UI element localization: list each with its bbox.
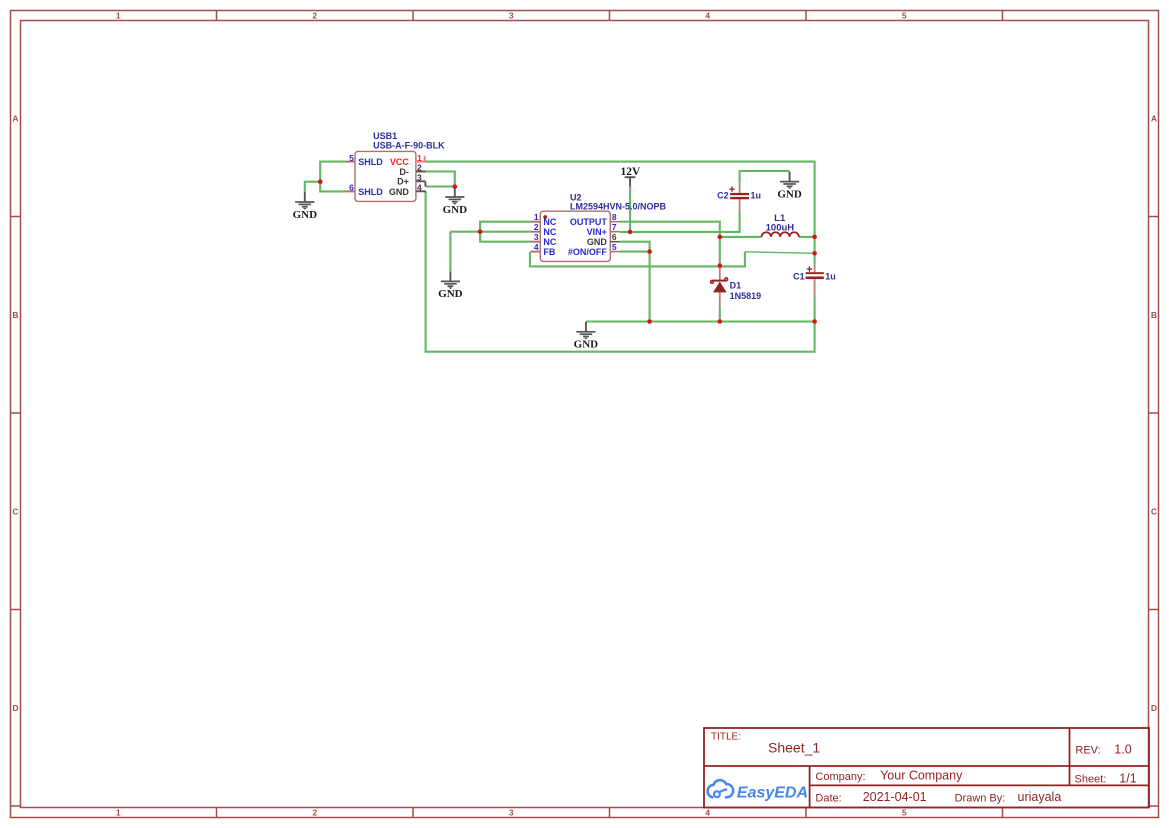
- svg-text:FB: FB: [543, 247, 555, 257]
- svg-text:D-: D-: [399, 167, 409, 177]
- svg-text:TITLE:: TITLE:: [711, 732, 741, 743]
- svg-text:5: 5: [349, 153, 354, 163]
- svg-text:NC: NC: [543, 237, 556, 247]
- svg-text:USB-A-F-90-BLK: USB-A-F-90-BLK: [373, 140, 445, 150]
- svg-text:EasyEDA: EasyEDA: [737, 784, 808, 801]
- svg-text:Company:: Company:: [815, 771, 865, 783]
- svg-text:NC: NC: [543, 227, 556, 237]
- svg-text:1: 1: [116, 807, 121, 817]
- svg-text:Sheet:: Sheet:: [1075, 774, 1107, 786]
- svg-text:B: B: [12, 310, 18, 320]
- svg-text:2: 2: [534, 222, 539, 232]
- svg-text:REV:: REV:: [1075, 745, 1100, 757]
- svg-text:Sheet_1: Sheet_1: [768, 740, 820, 756]
- svg-text:C: C: [12, 506, 18, 516]
- svg-text:4: 4: [705, 807, 710, 817]
- svg-text:1: 1: [417, 153, 422, 163]
- svg-text:2: 2: [312, 11, 317, 21]
- svg-text:5: 5: [612, 242, 617, 252]
- svg-text:1: 1: [116, 11, 121, 21]
- svg-text:NC: NC: [543, 217, 556, 227]
- svg-text:LM2594HVN-5.0/NOPB: LM2594HVN-5.0/NOPB: [570, 202, 667, 212]
- svg-text:1u: 1u: [751, 191, 762, 201]
- svg-text:6: 6: [349, 183, 354, 193]
- svg-text:1/1: 1/1: [1119, 772, 1136, 786]
- svg-text:5: 5: [902, 11, 907, 21]
- svg-text:7: 7: [612, 222, 617, 232]
- svg-text:6: 6: [612, 232, 617, 242]
- svg-text:GND: GND: [777, 188, 802, 200]
- svg-text:D1: D1: [730, 281, 742, 291]
- svg-text:Date:: Date:: [815, 792, 841, 804]
- svg-text:OUTPUT: OUTPUT: [570, 217, 608, 227]
- svg-text:C: C: [1151, 506, 1157, 516]
- svg-text:D: D: [1151, 703, 1157, 713]
- svg-text:2021-04-01: 2021-04-01: [863, 790, 927, 804]
- svg-text:2: 2: [312, 807, 317, 817]
- svg-text:#ON/OFF: #ON/OFF: [568, 247, 608, 257]
- svg-text:D: D: [12, 703, 18, 713]
- svg-text:GND: GND: [574, 339, 599, 351]
- svg-text:1.0: 1.0: [1114, 743, 1131, 757]
- svg-text:A: A: [1151, 113, 1157, 123]
- svg-text:12V: 12V: [620, 166, 641, 178]
- svg-text:2: 2: [417, 163, 422, 173]
- svg-text:GND: GND: [587, 237, 608, 247]
- svg-text:8: 8: [612, 212, 617, 222]
- svg-text:uriayala: uriayala: [1018, 790, 1062, 804]
- svg-text:100uH: 100uH: [766, 223, 795, 234]
- svg-text:1u: 1u: [825, 272, 836, 282]
- svg-text:Drawn By:: Drawn By:: [955, 792, 1006, 804]
- svg-text:A: A: [12, 113, 18, 123]
- svg-text:4: 4: [534, 242, 539, 252]
- svg-text:4: 4: [705, 11, 710, 21]
- svg-text:SHLD: SHLD: [358, 187, 383, 197]
- svg-text:3: 3: [509, 807, 514, 817]
- svg-text:GND: GND: [293, 209, 318, 221]
- svg-text:3: 3: [534, 232, 539, 242]
- svg-text:C1: C1: [793, 272, 805, 282]
- svg-text:GND: GND: [389, 187, 410, 197]
- svg-text:SHLD: SHLD: [358, 157, 383, 167]
- svg-text:3: 3: [509, 11, 514, 21]
- svg-text:4: 4: [417, 183, 422, 193]
- svg-text:GND: GND: [438, 288, 463, 300]
- svg-text:GND: GND: [443, 204, 468, 216]
- svg-text:Your Company: Your Company: [880, 769, 963, 783]
- svg-text:1N5819: 1N5819: [730, 291, 762, 301]
- svg-text:D+: D+: [397, 177, 409, 187]
- svg-text:C2: C2: [717, 191, 729, 201]
- svg-text:5: 5: [902, 807, 907, 817]
- svg-text:B: B: [1151, 310, 1157, 320]
- svg-text:VIN+: VIN+: [587, 227, 607, 237]
- svg-text:1: 1: [534, 212, 539, 222]
- svg-text:3: 3: [417, 173, 422, 183]
- svg-text:VCC: VCC: [390, 157, 410, 167]
